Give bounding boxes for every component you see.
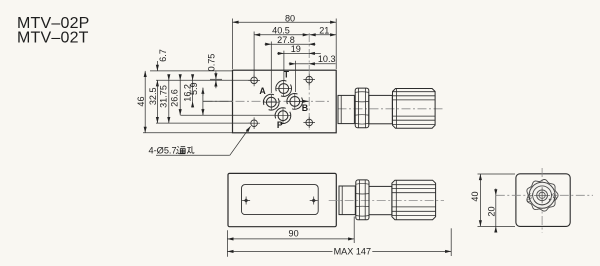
stem shaft (top view): [369, 95, 393, 123]
step cylinder (front): [339, 186, 355, 215]
svg-text:31.75: 31.75: [159, 85, 169, 108]
knurled knob (top view): [393, 89, 436, 129]
svg-text:32.5: 32.5: [148, 87, 158, 105]
dim 5.9: [202, 88, 204, 96]
svg-text:90: 90: [289, 228, 299, 238]
ext line front left edge: [226, 230, 228, 256]
svg-text:5.9: 5.9: [189, 82, 199, 95]
dim 46: [144, 71, 146, 133]
dim 10.3 outside arrows: [296, 63, 309, 65]
end view horizontal centerline: [496, 194, 593, 196]
label tong-kong glyph TONG: [176, 146, 185, 153]
ext line P row: [181, 114, 275, 116]
ext line body left edge up: [232, 19, 234, 70]
bolt hole bottom-left: [248, 117, 260, 129]
dim 19 outside arrows: [284, 52, 309, 54]
svg-text:40.5: 40.5: [272, 25, 290, 35]
arrow on A-B centerline at bolt column: [301, 100, 309, 102]
end view vertical centerline: [541, 168, 543, 233]
bolt hole bottom-right: [303, 117, 315, 129]
dim 27.8 outside arrows: [271, 43, 309, 45]
ext line left bolt column: [253, 32, 255, 77]
svg-text:B: B: [302, 103, 308, 113]
ext line nut face column: [353, 217, 355, 244]
port P: [275, 108, 291, 124]
svg-text:40: 40: [470, 191, 480, 201]
rotation arc arrow: [534, 201, 550, 205]
dim 20: [495, 189, 497, 196]
ext line B column: [295, 61, 297, 92]
dim MAX 147: [227, 250, 332, 252]
svg-text:6.7: 6.7: [158, 49, 168, 62]
dim 80: [233, 21, 337, 23]
stem shaft (front): [369, 186, 392, 214]
locating pin mark right: [310, 197, 318, 205]
bolt hole top-left: [248, 75, 260, 87]
ext line A column: [270, 42, 272, 94]
ext line T column: [283, 51, 285, 81]
svg-text:46: 46: [136, 96, 146, 106]
dim 21: [310, 34, 337, 36]
port T: [276, 81, 292, 97]
lock nut (front): [356, 180, 369, 220]
knob axis centerline (top view): [338, 108, 445, 110]
svg-text:10.3: 10.3: [318, 54, 336, 64]
end view square: [516, 174, 570, 227]
dim 40: [479, 174, 481, 226]
vertical centerline right bolt column: [308, 33, 310, 130]
ext line bolt bottom row: [156, 122, 250, 124]
dim 0.75 arrows: [215, 72, 217, 80]
ext line body right edge up: [335, 19, 337, 70]
ext line 0.75 upper row: [210, 78, 222, 80]
step cylinder (top view): [338, 95, 354, 123]
label tong-kong glyph KONG: [187, 146, 194, 153]
leader 4-dia5.7 through holes: [156, 126, 251, 155]
knob scallop outline: [527, 180, 558, 212]
svg-text:21: 21: [319, 25, 329, 35]
port A: [263, 94, 279, 110]
ext line end top: [478, 173, 516, 175]
svg-text:A: A: [259, 86, 266, 96]
svg-text:P: P: [277, 120, 283, 130]
ext line max stroke column: [450, 228, 452, 256]
knob inner circle: [537, 190, 548, 201]
locating pin mark left: [242, 197, 250, 205]
port B: [287, 94, 303, 110]
knob outer circle: [529, 182, 555, 208]
dim 16.2: [192, 75, 194, 81]
dim 31.75: [168, 75, 170, 81]
svg-text:26.6: 26.6: [170, 89, 180, 107]
dim 6.7 and 32.5 shared line: [156, 61, 158, 71]
svg-text:MTV–02T: MTV–02T: [17, 30, 89, 47]
ext line A-B row stub: [203, 100, 232, 102]
svg-text:19: 19: [291, 44, 301, 54]
front centerline: [329, 199, 444, 201]
bolt hole top-right: [303, 74, 315, 86]
svg-text:20: 20: [486, 206, 496, 216]
knob hub circle: [539, 192, 545, 198]
svg-text:MAX 147: MAX 147: [334, 246, 371, 256]
svg-text:T: T: [284, 70, 290, 80]
svg-text:4-Ø5.7: 4-Ø5.7: [149, 145, 177, 155]
ext line body top row: [150, 70, 232, 72]
svg-text:0.75: 0.75: [207, 54, 217, 72]
dim 26.6: [179, 75, 181, 81]
ext line bolt top row: [156, 79, 250, 81]
lock nut (top view): [355, 88, 369, 128]
ext line end bottom: [478, 225, 516, 227]
dim 90: [227, 238, 354, 240]
knurled knob (front): [392, 180, 436, 220]
knob center cross: [534, 187, 550, 203]
ext line body bottom row: [143, 132, 232, 134]
valve body (top view): [233, 70, 337, 133]
knob ring circle: [533, 186, 552, 205]
horizontal centerline through A-B ports: [204, 100, 332, 102]
svg-text:80: 80: [285, 13, 295, 23]
mounting face rounded rect: [242, 185, 319, 215]
front body: [228, 173, 336, 226]
dim 40.5: [254, 34, 309, 36]
